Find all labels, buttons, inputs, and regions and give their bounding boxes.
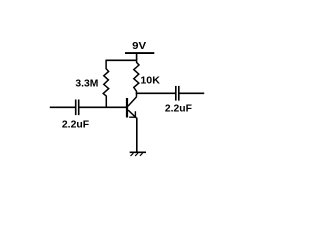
wire: output wire right of C2 (179, 92, 204, 94)
wire: output node to C2 (136, 92, 176, 94)
capacitor C1 2.2uF right plate (78, 100, 80, 116)
transistor Q1 emitter diagonal (128, 110, 136, 118)
ground hatch 2 (135, 153, 138, 156)
svg-text:9V: 9V (132, 41, 146, 52)
wire: base wire from C1 to transistor base (79, 106, 127, 108)
svg-text:2.2uF: 2.2uF (165, 103, 192, 114)
ground hatch 1 (131, 153, 134, 156)
transistor Q1 collector diagonal (128, 97, 137, 106)
svg-text:2.2uF: 2.2uF (62, 119, 89, 130)
capacitor C2 2.2uF right plate (178, 86, 180, 101)
resistor R2 10K (collector resistor, zigzag) (134, 60, 139, 93)
transistor Q1 emitter arrowhead (129, 111, 135, 117)
ground hatch 3 (140, 153, 143, 156)
resistor R1 3.3M (bias resistor, zigzag with leads) (103, 60, 109, 108)
wire: branch from power node left to bias resistor (106, 59, 137, 61)
wire: emitter lead down to ground (136, 118, 138, 153)
capacitor C2 2.2uF left plate (175, 86, 177, 101)
transistor Q1 base bar (126, 98, 128, 118)
svg-text:10K: 10K (140, 75, 160, 86)
capacitor C1 2.2uF left plate (75, 100, 77, 116)
power rail bar (9V terminal) (125, 52, 154, 54)
ground bar (130, 151, 146, 153)
svg-text:3.3M: 3.3M (75, 78, 98, 89)
wire: power stub from rail down to node (136, 53, 138, 60)
wire: collector vertical up to output node (136, 93, 138, 97)
wire: input wire left of C1 (50, 106, 76, 108)
